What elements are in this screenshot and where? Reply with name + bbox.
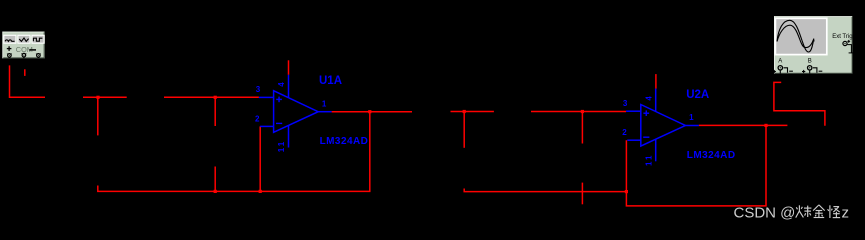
svg-text:z: z bbox=[842, 205, 850, 222]
wire U1A inverting input feedback tap bbox=[259, 126, 261, 191]
square button bbox=[32, 35, 44, 43]
pin 3 non-inverting input bbox=[626, 110, 641, 112]
wire vertical x464 upper bbox=[463, 112, 465, 148]
hanzi lian bbox=[796, 205, 812, 217]
svg-text:2: 2 bbox=[622, 128, 627, 137]
pin 1 output bbox=[318, 111, 331, 113]
node junction at 370,112 bbox=[368, 110, 371, 113]
wire vertical x464 lower and mid bottom rail bbox=[464, 189, 626, 192]
svg-text:11: 11 bbox=[277, 140, 286, 152]
svg-text:LM324AD: LM324AD bbox=[320, 136, 369, 147]
pin 3 non-inverting input bbox=[259, 96, 274, 98]
minus input mark bbox=[643, 136, 649, 138]
wire vertical x98 upper bbox=[97, 97, 99, 135]
wire top-left segment 2 bbox=[83, 96, 127, 98]
wire mid segment 3 bbox=[531, 111, 626, 113]
function generator XFG1 bbox=[2, 32, 44, 59]
svg-text:4: 4 bbox=[277, 82, 286, 87]
terminal + bbox=[7, 54, 12, 58]
pin 2 inverting input bbox=[260, 125, 274, 127]
wire top-left segment 3 bbox=[164, 96, 259, 98]
triangle button bbox=[18, 35, 30, 43]
svg-text:11: 11 bbox=[644, 154, 653, 166]
svg-text:U2A: U2A bbox=[686, 89, 709, 101]
screen bbox=[775, 18, 826, 54]
node junction at 582,111 bbox=[581, 110, 584, 113]
svg-text:1: 1 bbox=[689, 113, 694, 122]
svg-text:1: 1 bbox=[322, 99, 327, 108]
svg-text:U1A: U1A bbox=[319, 75, 342, 87]
svg-text:4: 4 bbox=[644, 96, 653, 101]
svg-text:3: 3 bbox=[256, 85, 261, 94]
pin 4 V+ bbox=[288, 75, 290, 98]
pin 11 V- bbox=[288, 125, 290, 147]
svg-text:A: A bbox=[778, 58, 782, 64]
hanzi jin bbox=[813, 205, 825, 218]
sine button bbox=[4, 35, 16, 43]
node junction at 215,191 bbox=[214, 190, 217, 193]
plus mark bbox=[7, 48, 12, 50]
wire U2A VCC bbox=[655, 74, 657, 89]
wire vertical x215 upper bbox=[214, 97, 216, 126]
plus input mark bbox=[643, 112, 649, 114]
waveform trace 1 bbox=[777, 20, 814, 52]
wire U2A output bbox=[699, 124, 788, 126]
wire U2A inverting feedback tap + bottom right rail bbox=[626, 125, 766, 206]
pin 1 output bbox=[685, 125, 698, 127]
op-amp U1A bbox=[255, 75, 368, 152]
svg-text:3: 3 bbox=[623, 99, 628, 108]
pin 2 inverting input bbox=[627, 139, 641, 141]
node junction at 98,97 bbox=[96, 96, 99, 99]
hanzi guai bbox=[828, 205, 841, 218]
wire COM stub bbox=[24, 69, 26, 76]
node junction at 464,111 bbox=[463, 110, 466, 113]
channel B terminal bbox=[802, 66, 822, 74]
wire vertical x98 lower to bottom rail bbox=[98, 186, 371, 192]
svg-text:Ext Trig: Ext Trig bbox=[832, 34, 852, 40]
channel A terminal bbox=[773, 66, 793, 74]
wire mid segment 2 bbox=[451, 111, 494, 113]
watermark CSDN bbox=[734, 205, 850, 222]
node junction at 626,191.6 bbox=[625, 190, 628, 193]
wire vertical x215 lower bbox=[214, 167, 216, 192]
terminal - bbox=[36, 54, 41, 58]
svg-text:CSDN @: CSDN @ bbox=[734, 205, 796, 222]
minus mark bbox=[29, 49, 36, 51]
op-amp U2A bbox=[622, 89, 735, 166]
wire from XFG + terminal down bbox=[10, 65, 46, 97]
wire U1A VCC bbox=[288, 60, 290, 75]
ext trig terminal bbox=[843, 40, 854, 53]
oscilloscope XSC1 bbox=[773, 16, 854, 73]
waveform trace 2 bbox=[777, 25, 814, 47]
node junction at 215,97 bbox=[214, 96, 217, 99]
triangle body bbox=[274, 91, 319, 133]
plus input mark bbox=[276, 98, 282, 100]
minus input mark bbox=[276, 122, 282, 124]
pin 4 V+ bbox=[655, 89, 657, 112]
wire vertical x582 upper bbox=[581, 112, 583, 144]
triangle body bbox=[641, 105, 686, 147]
trace arrowhead bbox=[812, 39, 815, 42]
wire vertical x582 lower crossing rail bbox=[581, 183, 583, 205]
wire to scope channel A bbox=[774, 82, 825, 125]
node junction at 766,125 bbox=[764, 124, 767, 127]
wire U1A feedback vertical bbox=[369, 112, 371, 192]
wire U1A output bbox=[332, 111, 412, 113]
pin 11 V- bbox=[655, 139, 657, 161]
svg-text:2: 2 bbox=[255, 114, 260, 123]
node junction at 260,191 bbox=[259, 190, 262, 193]
terminal COM bbox=[22, 53, 27, 58]
svg-text:LM324AD: LM324AD bbox=[687, 150, 736, 161]
svg-text:B: B bbox=[808, 58, 812, 64]
